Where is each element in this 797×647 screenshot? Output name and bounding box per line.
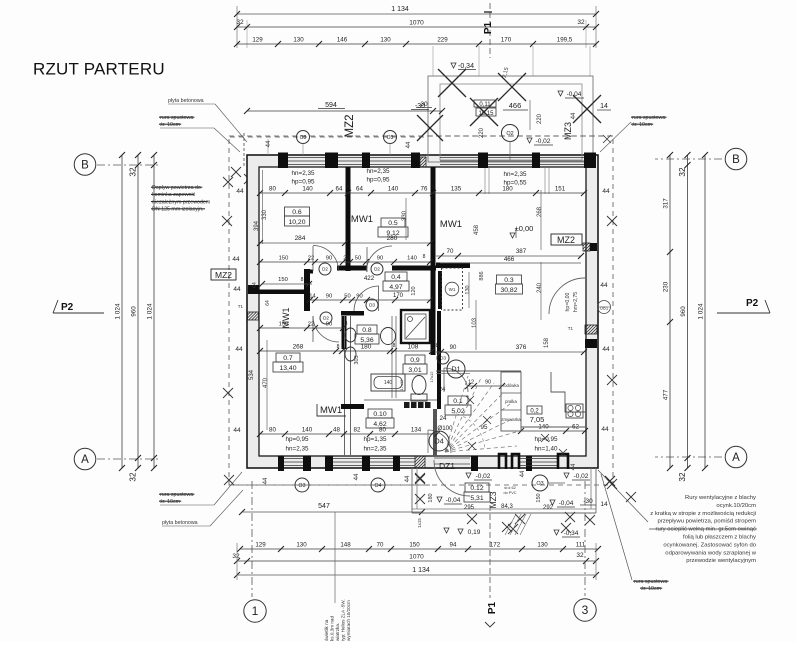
- svg-text:-0,04: -0,04: [567, 91, 582, 98]
- svg-text:24: 24: [440, 415, 447, 422]
- svg-text:44: 44: [571, 112, 577, 119]
- svg-text:70: 70: [447, 248, 454, 255]
- svg-text:niezależnym przewodem: niezależnym przewodem: [152, 199, 211, 205]
- svg-text:90: 90: [485, 380, 491, 386]
- svg-text:466: 466: [509, 101, 522, 110]
- svg-text:422: 422: [364, 275, 375, 282]
- svg-text:292: 292: [543, 505, 554, 511]
- svg-text:960: 960: [131, 306, 138, 317]
- svg-text:140: 140: [407, 256, 417, 262]
- svg-text:280: 280: [387, 235, 398, 242]
- svg-text:172: 172: [490, 542, 501, 549]
- svg-text:14: 14: [309, 294, 316, 300]
- svg-text:330: 330: [262, 209, 268, 220]
- svg-text:P2: P2: [746, 298, 759, 309]
- svg-text:148: 148: [340, 542, 351, 549]
- svg-text:44: 44: [236, 188, 244, 195]
- svg-text:hn=2,35: hn=2,35: [286, 446, 309, 453]
- svg-text:32: 32: [129, 472, 138, 482]
- svg-text:O3: O3: [387, 135, 394, 141]
- svg-text:4,97: 4,97: [389, 284, 402, 291]
- svg-text:82: 82: [354, 427, 361, 434]
- svg-text:śr. 10cm: śr. 10cm: [641, 586, 662, 592]
- svg-text:180: 180: [428, 493, 434, 502]
- svg-text:wiatrzka.: wiatrzka.: [335, 623, 340, 641]
- svg-text:0.7: 0.7: [283, 355, 293, 362]
- svg-text:hn=2,35: hn=2,35: [364, 446, 387, 453]
- svg-text:44: 44: [232, 256, 240, 263]
- svg-text:14: 14: [600, 103, 608, 110]
- svg-text:B: B: [732, 154, 740, 166]
- svg-text:8: 8: [393, 343, 396, 349]
- svg-text:477: 477: [663, 389, 670, 400]
- svg-text:D3: D3: [440, 356, 446, 361]
- svg-text:hn=2,35: hn=2,35: [367, 168, 390, 175]
- svg-text:A: A: [81, 454, 89, 466]
- svg-text:150: 150: [279, 256, 289, 262]
- svg-text:120: 120: [411, 286, 417, 295]
- svg-text:268: 268: [293, 344, 304, 351]
- svg-text:140: 140: [302, 186, 313, 193]
- svg-text:134: 134: [411, 427, 422, 434]
- svg-text:ocynk.10/20cm: ocynk.10/20cm: [716, 503, 756, 509]
- svg-text:32: 32: [678, 472, 687, 482]
- svg-text:44: 44: [602, 346, 610, 353]
- svg-text:hn=2,35: hn=2,35: [504, 171, 527, 178]
- svg-text:0.5: 0.5: [388, 220, 398, 227]
- svg-text:150: 150: [409, 542, 420, 549]
- svg-text:317: 317: [663, 198, 670, 209]
- svg-text:44: 44: [354, 473, 360, 480]
- svg-text:1 134: 1 134: [412, 567, 430, 574]
- svg-text:hm=2,75: hm=2,75: [573, 292, 579, 312]
- svg-text:śr.d 62: śr.d 62: [504, 486, 515, 490]
- svg-text:0,9: 0,9: [410, 357, 420, 364]
- svg-text:P1: P1: [487, 601, 498, 614]
- svg-text:140: 140: [384, 380, 393, 386]
- svg-text:50: 50: [344, 294, 350, 300]
- svg-text:ks.0,3m nad: ks.0,3m nad: [330, 616, 335, 641]
- svg-text:D1: D1: [452, 366, 461, 373]
- svg-text:MZ2: MZ2: [557, 235, 575, 245]
- svg-text:płyta betonowa: płyta betonowa: [162, 520, 198, 526]
- svg-text:do PVC: do PVC: [503, 491, 516, 495]
- svg-text:268: 268: [537, 206, 543, 217]
- svg-text:RZUT PARTERU: RZUT PARTERU: [33, 60, 165, 79]
- svg-text:90: 90: [377, 256, 383, 262]
- svg-text:140: 140: [388, 186, 399, 193]
- svg-text:-30: -30: [583, 498, 593, 505]
- svg-text:14: 14: [600, 501, 608, 508]
- svg-text:-0,02: -0,02: [574, 473, 589, 480]
- svg-text:0,19: 0,19: [468, 529, 481, 536]
- svg-text:44: 44: [263, 477, 269, 484]
- svg-text:129: 129: [255, 542, 266, 549]
- svg-text:376: 376: [516, 344, 527, 351]
- svg-text:44: 44: [405, 475, 411, 482]
- svg-text:hn=2,35: hn=2,35: [292, 170, 315, 177]
- svg-text:przepływu powietrza, pomiśd st: przepływu powietrza, pomiśd stropem: [657, 519, 756, 525]
- svg-text:-0,02: -0,02: [536, 138, 551, 145]
- svg-text:80: 80: [269, 186, 276, 193]
- svg-text:48: 48: [333, 427, 340, 434]
- svg-text:1 134: 1 134: [391, 6, 409, 13]
- svg-text:140: 140: [302, 427, 313, 434]
- svg-text:330: 330: [402, 210, 408, 221]
- svg-text:32: 32: [678, 167, 687, 177]
- svg-text:O3: O3: [300, 135, 307, 141]
- svg-text:8: 8: [432, 185, 435, 191]
- svg-text:1: 1: [252, 604, 259, 618]
- svg-text:80: 80: [269, 427, 276, 434]
- svg-text:90: 90: [326, 322, 332, 328]
- svg-text:17x12: 17x12: [429, 371, 434, 383]
- svg-text:pralka: pralka: [505, 399, 517, 404]
- svg-text:B: B: [81, 160, 89, 172]
- svg-text:44: 44: [601, 426, 609, 433]
- svg-text:32: 32: [577, 19, 585, 26]
- svg-text:O4: O4: [375, 483, 382, 489]
- svg-text:32: 32: [236, 19, 244, 26]
- svg-text:394: 394: [254, 220, 260, 231]
- svg-text:T1: T1: [568, 326, 574, 331]
- svg-text:5,31: 5,31: [470, 495, 483, 502]
- svg-text:-0,02: -0,02: [476, 473, 491, 480]
- svg-text:-0,34: -0,34: [458, 63, 474, 70]
- svg-text:śr. 10cm: śr. 10cm: [160, 499, 181, 505]
- svg-text:44: 44: [520, 470, 526, 477]
- svg-text:594: 594: [325, 102, 337, 109]
- svg-text:64: 64: [265, 300, 271, 306]
- svg-text:960: 960: [680, 306, 687, 317]
- svg-text:8: 8: [436, 343, 439, 349]
- svg-text:płyta betonowa: płyta betonowa: [168, 98, 204, 104]
- svg-text:303: 303: [354, 355, 360, 364]
- svg-text:32: 32: [232, 553, 240, 560]
- svg-text:130: 130: [465, 285, 471, 294]
- svg-text:rura spustowa: rura spustowa: [634, 579, 667, 585]
- svg-text:24: 24: [439, 386, 446, 393]
- svg-text:32: 32: [576, 552, 584, 559]
- svg-text:387: 387: [516, 248, 527, 255]
- svg-text:84,3: 84,3: [501, 504, 513, 510]
- svg-text:44: 44: [233, 286, 241, 293]
- svg-text:±0,00: ±0,00: [515, 224, 534, 233]
- svg-text:22: 22: [343, 256, 349, 262]
- svg-text:130: 130: [380, 37, 391, 44]
- svg-text:30: 30: [420, 101, 428, 108]
- svg-text:458: 458: [474, 224, 480, 235]
- svg-text:0,4: 0,4: [391, 274, 401, 281]
- svg-text:108: 108: [408, 344, 419, 351]
- svg-text:0.10: 0.10: [373, 411, 386, 418]
- svg-text:hp=0,00: hp=0,00: [565, 292, 571, 311]
- svg-text:Rury wentylacyjne z blachy: Rury wentylacyjne z blachy: [685, 495, 756, 501]
- svg-text:44: 44: [571, 463, 577, 470]
- svg-text:1 024: 1 024: [147, 303, 154, 320]
- svg-text:90: 90: [326, 256, 332, 262]
- svg-text:240: 240: [537, 282, 543, 293]
- svg-text:D4: D4: [434, 437, 444, 446]
- svg-text:103: 103: [472, 317, 478, 328]
- svg-text:150: 150: [279, 322, 289, 328]
- svg-text:MZ2: MZ2: [215, 270, 232, 280]
- svg-text:44: 44: [406, 141, 412, 148]
- svg-text:1x15: 1x15: [417, 518, 422, 528]
- svg-text:284: 284: [295, 235, 306, 242]
- svg-text:80: 80: [379, 427, 386, 434]
- svg-text:151: 151: [555, 186, 566, 193]
- svg-text:O3: O3: [299, 483, 306, 489]
- svg-text:O3: O3: [536, 481, 543, 487]
- svg-text:15,15: 15,15: [478, 111, 494, 117]
- svg-text:1 024: 1 024: [698, 303, 705, 320]
- svg-text:kominka zapewnić: kominka zapewnić: [152, 192, 196, 198]
- svg-text:OB1: OB1: [600, 306, 609, 311]
- svg-text:P2: P2: [61, 302, 74, 313]
- svg-text:O2: O2: [506, 131, 513, 137]
- svg-text:12: 12: [468, 380, 474, 386]
- svg-text:30,82: 30,82: [500, 287, 517, 294]
- svg-text:rura spustowa: rura spustowa: [632, 115, 665, 121]
- svg-text:220: 220: [537, 113, 543, 124]
- svg-text:0.8: 0.8: [362, 327, 372, 334]
- svg-text:DN 125 mm izolacyjn.: DN 125 mm izolacyjn.: [152, 207, 204, 213]
- svg-text:130: 130: [296, 542, 307, 549]
- svg-text:886: 886: [479, 271, 485, 280]
- svg-text:8: 8: [347, 185, 350, 191]
- svg-text:rury ocieplić wełną min. gr.5c: rury ocieplić wełną min. gr.5cm owinąć: [655, 527, 756, 533]
- svg-text:470: 470: [263, 377, 269, 388]
- svg-text:547: 547: [318, 503, 330, 510]
- svg-text:534: 534: [249, 369, 255, 380]
- svg-text:D2: D2: [322, 267, 328, 272]
- svg-text:P1: P1: [483, 21, 494, 34]
- svg-text:64: 64: [252, 282, 258, 288]
- svg-text:śr. 10cm: śr. 10cm: [160, 122, 181, 128]
- svg-text:10,20: 10,20: [288, 219, 305, 226]
- svg-text:-0,04: -0,04: [559, 500, 574, 507]
- svg-text:hp=1,35: hp=1,35: [364, 436, 387, 443]
- svg-text:90: 90: [450, 345, 457, 351]
- svg-text:146: 146: [337, 37, 348, 44]
- svg-text:158: 158: [544, 337, 550, 348]
- svg-text:rura spustowa: rura spustowa: [160, 492, 193, 498]
- svg-text:230: 230: [663, 281, 670, 292]
- svg-text:8: 8: [423, 254, 426, 260]
- svg-text:MZ2: MZ2: [344, 115, 356, 138]
- svg-text:50: 50: [355, 256, 361, 262]
- svg-text:3: 3: [582, 603, 589, 617]
- svg-text:odparowywania wody szraplanej: odparowywania wody szraplanej w: [665, 550, 756, 556]
- svg-text:76: 76: [421, 186, 428, 193]
- svg-text:3,01: 3,01: [408, 367, 421, 374]
- svg-text:64: 64: [356, 186, 363, 193]
- svg-text:MW1: MW1: [320, 405, 342, 416]
- svg-text:przewodzie wentylacyjnym: przewodzie wentylacyjnym: [686, 558, 756, 564]
- svg-text:wymiarach 10/20cm: wymiarach 10/20cm: [346, 600, 351, 641]
- svg-text:hn=1,40: hn=1,40: [535, 446, 558, 453]
- svg-text:220: 220: [479, 127, 485, 138]
- svg-text:1 024: 1 024: [115, 303, 122, 320]
- svg-text:1070: 1070: [409, 20, 424, 27]
- svg-text:32: 32: [129, 167, 138, 177]
- svg-text:0,11: 0,11: [479, 102, 491, 108]
- svg-text:199,5: 199,5: [557, 37, 573, 44]
- svg-text:folią lub płaszczem z blachy: folią lub płaszczem z blachy: [683, 535, 756, 541]
- svg-text:44: 44: [235, 346, 243, 353]
- svg-text:229: 229: [437, 37, 448, 44]
- svg-text:śr. 10cm: śr. 10cm: [632, 122, 653, 128]
- svg-text:466: 466: [504, 256, 515, 263]
- svg-text:170: 170: [393, 293, 404, 299]
- svg-text:8: 8: [345, 321, 348, 327]
- svg-text:70: 70: [377, 542, 384, 549]
- svg-text:MZ3: MZ3: [488, 491, 498, 508]
- svg-text:64: 64: [336, 186, 343, 193]
- svg-text:hp=0,95: hp=0,95: [367, 177, 390, 184]
- svg-text:D3: D3: [369, 303, 375, 308]
- svg-text:-0,34: -0,34: [564, 530, 579, 537]
- svg-text:90: 90: [326, 294, 332, 300]
- svg-text:-0,04: -0,04: [446, 497, 461, 504]
- svg-text:170: 170: [501, 37, 512, 44]
- svg-text:D2: D2: [323, 316, 329, 321]
- svg-text:0.1: 0.1: [453, 398, 463, 405]
- svg-text:0.3: 0.3: [504, 277, 514, 284]
- svg-text:130: 130: [293, 37, 304, 44]
- svg-text:1070: 1070: [409, 554, 424, 561]
- svg-text:8: 8: [337, 344, 340, 350]
- svg-text:0.12: 0.12: [470, 485, 483, 492]
- svg-text:rura spustowa: rura spustowa: [160, 115, 193, 121]
- svg-text:8: 8: [301, 277, 304, 283]
- svg-text:A: A: [732, 452, 740, 464]
- svg-text:150: 150: [278, 277, 288, 283]
- svg-text:295: 295: [464, 505, 475, 511]
- svg-text:135: 135: [451, 186, 462, 193]
- svg-text:MW1: MW1: [440, 219, 462, 230]
- svg-text:z kratką w stropie z możliwośc: z kratką w stropie z możliwością redukcj…: [650, 511, 756, 517]
- svg-text:111: 111: [576, 542, 586, 549]
- svg-text:44: 44: [602, 188, 610, 195]
- svg-text:MZ3: MZ3: [563, 122, 573, 140]
- svg-text:150: 150: [536, 493, 542, 502]
- svg-text:13,40: 13,40: [279, 365, 296, 372]
- svg-text:hp=0,95: hp=0,95: [286, 436, 309, 443]
- svg-text:44: 44: [600, 282, 608, 289]
- svg-text:0.6: 0.6: [292, 209, 302, 216]
- svg-text:MW1: MW1: [351, 214, 373, 225]
- svg-text:130: 130: [537, 542, 548, 549]
- svg-text:T1: T1: [238, 304, 244, 309]
- svg-text:typ: Helios ZLA -5W.: typ: Helios ZLA -5W.: [341, 599, 346, 641]
- svg-text:180: 180: [502, 186, 513, 193]
- svg-text:W1: W1: [449, 287, 456, 292]
- svg-text:D2: D2: [374, 267, 380, 272]
- svg-text:hp=0,95: hp=0,95: [292, 179, 315, 186]
- svg-text:129: 129: [252, 37, 263, 44]
- svg-text:0,2: 0,2: [530, 409, 539, 415]
- svg-text:świetlik na: świetlik na: [324, 619, 329, 641]
- svg-text:DZ1: DZ1: [439, 461, 455, 471]
- svg-text:ocynkowanej. Zastosować syfon: ocynkowanej. Zastosować syfon do: [663, 542, 756, 548]
- svg-text:180: 180: [361, 344, 372, 351]
- svg-text:44: 44: [233, 427, 241, 434]
- svg-text:Dopływ powietrza do: Dopływ powietrza do: [152, 185, 201, 191]
- svg-text:94: 94: [450, 542, 457, 549]
- svg-text:lodówka: lodówka: [503, 383, 519, 388]
- svg-text:44: 44: [266, 140, 272, 147]
